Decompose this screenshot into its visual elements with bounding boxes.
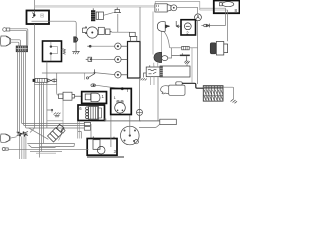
wire bundle mid vertical 2: [41, 82, 43, 151]
squiggle under box6 corner: [105, 118, 107, 121]
starter solenoid: [176, 82, 182, 85]
wire coil to T-connector: [104, 13, 114, 16]
wire parking lamp pair 2: [10, 30, 26, 45]
wire cluster tails to bottom: [20, 137, 26, 160]
wire headlamp to ammeter: [177, 6, 198, 8]
wire top bus: [34, 0, 36, 10]
wire distributor to junction box: [139, 124, 160, 127]
headlamp assembly (top right): [155, 4, 177, 12]
wire bundle vertical 1: [17, 51, 19, 132]
connector pair row1: [87, 45, 89, 47]
wire box6 left pair down: [78, 121, 80, 139]
starter motor body: [169, 85, 185, 95]
wire connector down to junction: [140, 115, 160, 121]
wire parking lamp pair: [10, 29, 28, 46]
T-connector: [114, 8, 122, 13]
wire box6 right to junction: [105, 120, 142, 122]
inline connector circle-plus: [137, 109, 143, 115]
connector pair row2: [86, 57, 92, 61]
switch terminal 1: [115, 43, 121, 49]
wire row3 to switch: [42, 73, 115, 75]
ammeter A: [195, 14, 202, 21]
headlamp left-lower: [1, 134, 11, 142]
wire verticals to fusebox: [191, 48, 193, 83]
ignition coil (diagonal): [48, 124, 65, 142]
wire fusebox right to ground: [223, 87, 234, 99]
wire crossing horizontal 3: [36, 152, 56, 154]
ground symbol (below motor): [72, 42, 80, 54]
horn cone (lower): [154, 52, 162, 62]
wire crossing horizontal 1: [29, 143, 75, 147]
box3 top pins: [93, 137, 114, 139]
wire wide box down: [157, 77, 159, 121]
connector on box7 top: [121, 87, 124, 90]
flasher unit: [210, 42, 227, 56]
fuse box: [203, 86, 223, 101]
wire bundle to bottom join: [40, 146, 61, 148]
wire crossing horizontal 2: [30, 151, 62, 153]
lamp row1 dot: [89, 45, 92, 48]
diamond connector: [61, 128, 65, 133]
box1 bulb: [91, 93, 100, 102]
diode / connector symbol: [204, 24, 210, 28]
wire plug feed: [57, 73, 59, 95]
box7 socket nubs: [117, 101, 123, 103]
wire switch bottom down: [139, 78, 141, 109]
wire bowtie to plug drop: [34, 84, 56, 86]
wire pair into horn box: [200, 8, 228, 10]
wiper control box (wide): [160, 66, 190, 77]
relay (solenoid box): [146, 65, 160, 77]
wire lamp to right: [112, 31, 130, 33]
wire ammeter top: [197, 7, 199, 14]
wiper motor M: [74, 37, 78, 42]
wire long vertical from S1 column: [30, 24, 35, 133]
relay bottom wires: [150, 77, 154, 85]
capacitor bar to ground: [172, 53, 190, 63]
switch top tabs: [129, 32, 135, 36]
switch terminal 2 stem: [121, 58, 127, 60]
wire diagonal cluster to coil: [29, 128, 49, 140]
wire over headlamp box to horn box: [155, 2, 200, 10]
junction dot (x52,y110): [51, 109, 53, 111]
wire junction branch: [47, 110, 52, 113]
wire bundle vertical 5: [26, 51, 85, 138]
wire ammeter bottom: [197, 21, 199, 84]
regulator box 9: [43, 41, 62, 62]
wire stack junction down to box3: [90, 124, 92, 139]
coil cylinder: [96, 12, 103, 19]
wire capsule to box7 top: [96, 85, 121, 88]
wire headlamp box to relay: [153, 12, 158, 68]
junction cluster (lower harness node): [17, 131, 29, 136]
wire regulator bottom down: [46, 62, 48, 129]
resistor on regulator right: [62, 49, 66, 54]
horn box 8: [214, 1, 240, 14]
switch symbol row3: [88, 69, 95, 77]
connector bowtie: [48, 79, 57, 82]
wire solenoid to fusebox (thick): [182, 83, 203, 88]
wire through resistor: [170, 47, 198, 49]
wire parking lamp lower: [8, 148, 88, 150]
parking lamp lower: [2, 148, 8, 151]
wire top horizontal bus 2: [35, 6, 156, 8]
wire headlamp pair 2: [11, 42, 19, 45]
wire right edge vertical (x141): [139, 7, 141, 42]
box3 circle: [97, 146, 105, 154]
junction box (right of distributor): [160, 119, 177, 124]
dynamo circle: [184, 23, 191, 30]
wire horn box down 2: [227, 10, 229, 41]
wire diode to horn wire: [201, 25, 225, 27]
parking lamp (left, small): [3, 28, 10, 32]
arrow to dynamo: [176, 21, 181, 28]
wire S1 to wiper motor: [32, 21, 77, 37]
switch S1 (top-left box): [27, 11, 50, 25]
horn symbol in box: [220, 2, 234, 7]
wire bell down to relay: [160, 32, 162, 56]
regulator terminal a: [50, 45, 52, 47]
switch terminal 3 stem: [121, 74, 127, 76]
horn oval: [162, 56, 168, 61]
ground top right of wide box: [185, 62, 189, 66]
wire under coil: [27, 142, 74, 144]
wire T down: [117, 14, 119, 32]
wire headlamp pair: [11, 40, 21, 46]
ground symbol (below junction): [54, 113, 61, 117]
ground relay: [140, 73, 146, 81]
box7 socket circle: [115, 103, 126, 114]
regulator terminal b: [50, 52, 52, 54]
wire diamond stem: [47, 101, 63, 141]
switch terminal 2: [115, 56, 121, 62]
wire row1 to switch: [92, 45, 115, 47]
wire horn oval to dynamo line: [168, 48, 172, 58]
box 6 (regulator): [78, 105, 105, 121]
wire row2 to switch: [92, 58, 115, 60]
wire bundle mid vertical 3: [43, 82, 45, 144]
wire bottom long: [87, 157, 124, 158]
ground fusebox: [231, 99, 238, 103]
connector block A (upper terminal strip): [16, 46, 27, 52]
switch terminal 1 stem: [121, 45, 127, 47]
connector stack (below box6): [84, 122, 90, 130]
wire lever branch down: [84, 73, 86, 80]
headlamp left-upper: [1, 36, 11, 46]
wire bundle vertical 3: [22, 51, 85, 123]
box1 connector: [85, 94, 91, 100]
starter nose: [161, 86, 169, 94]
resistor (striped small box): [182, 46, 190, 49]
horn bell (center right): [157, 22, 169, 32]
wire bundle mid vertical 1: [39, 82, 41, 157]
wire box7 to distributor: [129, 116, 131, 136]
dynamo 2 (box): [181, 20, 196, 35]
distributor: [121, 126, 140, 145]
wire top horizontal bus: [35, 5, 156, 7]
spot lamp unit (middle): [83, 27, 112, 38]
wire bundle vertical 4: [24, 51, 85, 125]
inline capsule connector: [91, 84, 96, 87]
cable plug into box 1: [59, 92, 82, 100]
regulator internal wires: [51, 42, 58, 61]
box3 inner rect: [93, 140, 100, 150]
wire bundle vertical 2: [19, 51, 21, 132]
wire into box3: [110, 116, 112, 148]
switch terminal 3: [115, 72, 121, 78]
lighting switch (tall box): [128, 42, 141, 79]
box 1 (interior lamp): [82, 92, 107, 104]
fuse block (striped, top middle): [91, 8, 95, 21]
box6 striped element: [86, 107, 102, 120]
box 7 (switch with socket): [111, 89, 132, 115]
wire horn box down 1: [225, 8, 227, 25]
wire curve dynamo circuit: [164, 31, 170, 48]
wire lower headlamp: [10, 137, 17, 138]
switch S1 contact arc: [32, 13, 34, 18]
dynamo circle minus: [186, 25, 190, 27]
box 3 (coil box): [87, 139, 117, 156]
switch S1 secondary contact: [41, 14, 44, 17]
inline fuse F2 (left middle): [33, 78, 47, 82]
